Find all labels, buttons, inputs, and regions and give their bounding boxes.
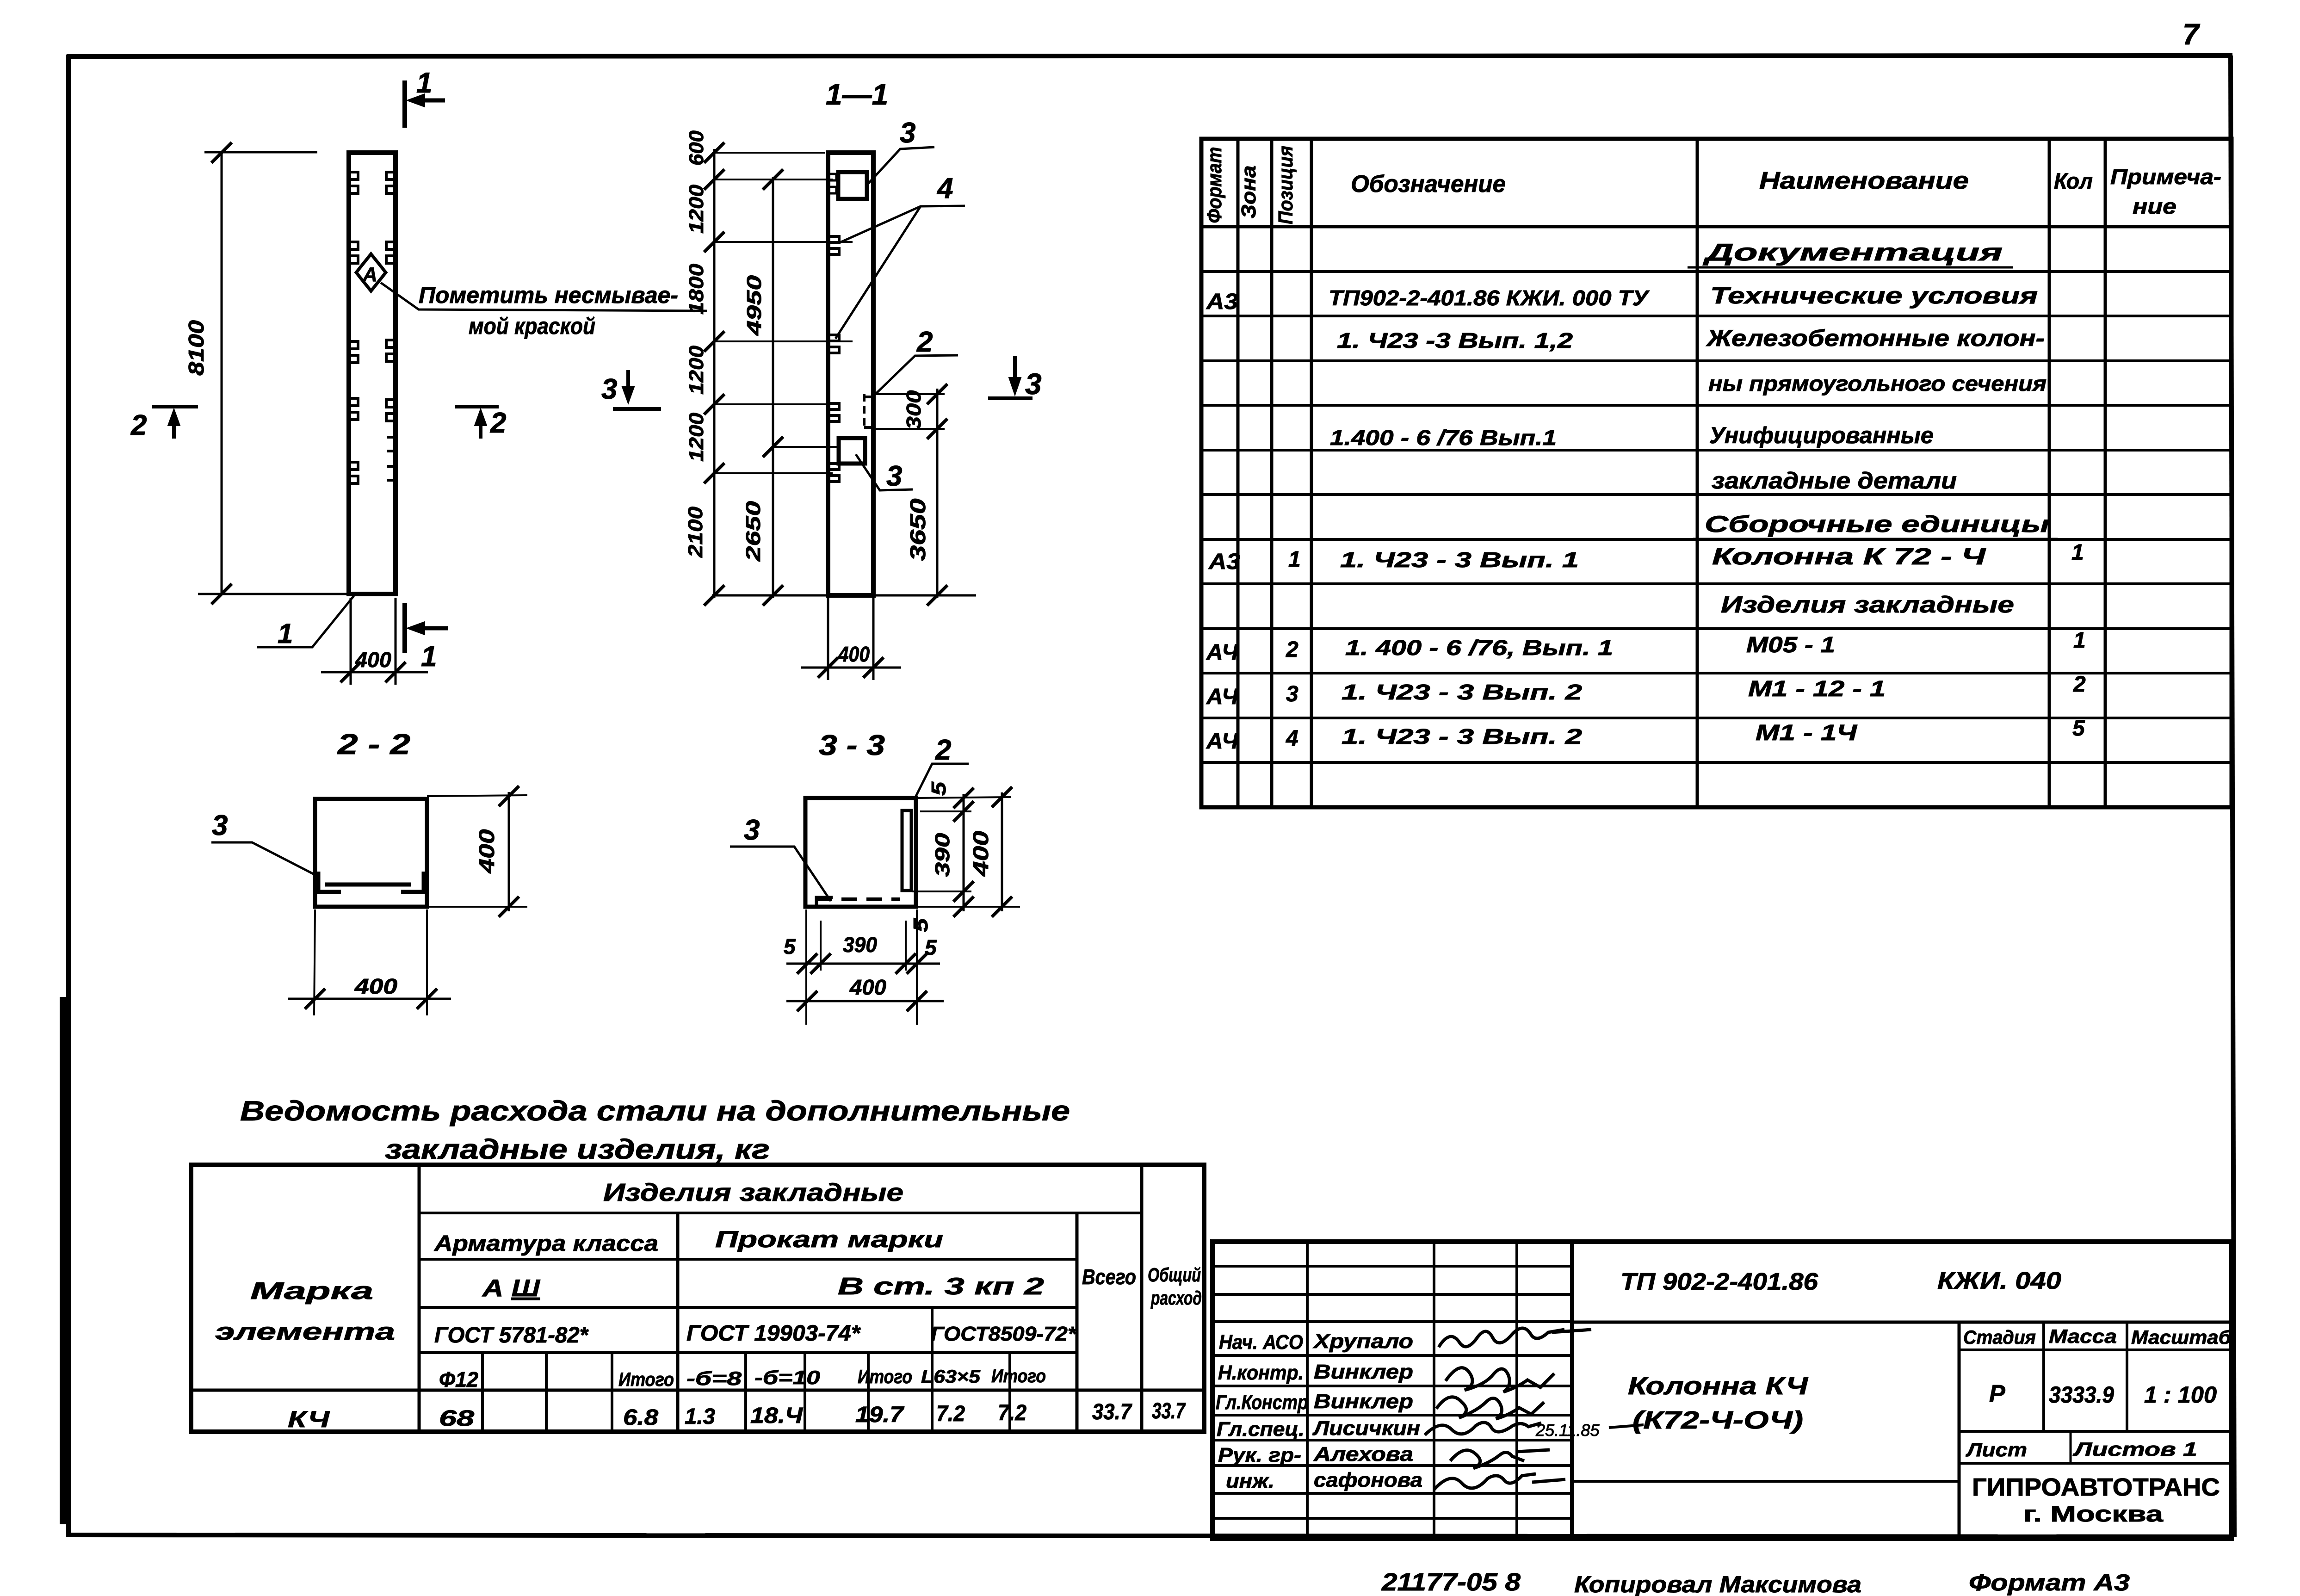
steel table v-line sub 7 bbox=[1008, 1353, 1011, 1432]
dimension 8100 top extension bbox=[204, 151, 317, 154]
svg-text:Колонна КЧ: Колонна КЧ bbox=[1628, 1372, 1809, 1400]
steel table v-line sub 3 bbox=[611, 1353, 613, 1432]
spec table row line 8 bbox=[1201, 582, 2232, 585]
spec table row line 4 bbox=[1201, 404, 2232, 407]
section mark 3 line bbox=[613, 407, 661, 411]
section mark 1 bottom arrow bbox=[415, 626, 448, 631]
elevation 400 extension left bbox=[350, 598, 352, 685]
spec table v-line 4 bbox=[1696, 139, 1699, 807]
signature lisichkin bbox=[1425, 1423, 1541, 1435]
svg-text:1: 1 bbox=[2073, 628, 2086, 653]
svg-text:3: 3 bbox=[900, 117, 915, 149]
spec table v-line 6 bbox=[2104, 139, 2107, 807]
svg-text:1. Ч23 - 3 Вып. 2: 1. Ч23 - 3 Вып. 2 bbox=[1342, 680, 1583, 704]
spec table row line 12 bbox=[1201, 761, 2232, 764]
elevation 400 extension right bbox=[395, 598, 397, 685]
section 3-3 right inner dim line bbox=[963, 794, 965, 911]
section mark 2 left arrow bbox=[172, 414, 176, 439]
svg-text:390: 390 bbox=[931, 833, 954, 877]
svg-text:мой краской: мой краской bbox=[469, 313, 595, 339]
svg-text:300: 300 bbox=[903, 390, 925, 430]
svg-text:1: 1 bbox=[278, 618, 293, 649]
leader line from diamond to paint note bbox=[381, 283, 707, 311]
steel table h-line 3 bbox=[419, 1306, 1077, 1309]
svg-text:3650: 3650 bbox=[906, 498, 930, 561]
svg-text:ние: ние bbox=[2133, 194, 2176, 218]
svg-text:3 - 3: 3 - 3 bbox=[819, 730, 885, 761]
svg-text:ны прямоугольного сечения: ны прямоугольного сечения bbox=[1708, 371, 2047, 396]
svg-text:3333.9: 3333.9 bbox=[2049, 1382, 2114, 1408]
drawing frame right border bbox=[2231, 56, 2234, 1537]
section 1-1 lower embed plate 3 bbox=[839, 438, 865, 464]
svg-text:Изделия закладные: Изделия закладные bbox=[1721, 592, 2014, 618]
svg-text:18.Ч: 18.Ч bbox=[750, 1404, 803, 1428]
svg-text:7: 7 bbox=[2183, 18, 2201, 51]
spec table v-line 2 bbox=[1270, 139, 1274, 807]
svg-text:1: 1 bbox=[421, 641, 437, 673]
spec table v-line 5 bbox=[2048, 139, 2051, 807]
spec table v-line 3 bbox=[1310, 139, 1313, 807]
svg-text:ТП 902-2-401.86: ТП 902-2-401.86 bbox=[1620, 1268, 1818, 1295]
signature vinkler2 bbox=[1436, 1397, 1544, 1419]
section 3-3 right ext 390 bottom bbox=[912, 891, 971, 892]
svg-text:2100: 2100 bbox=[684, 506, 707, 558]
spec table row line 9 bbox=[1201, 627, 2232, 630]
section 2-2 right ext top bbox=[427, 795, 527, 796]
steel table v-line sub 5 bbox=[804, 1353, 806, 1432]
svg-text:5: 5 bbox=[927, 781, 950, 796]
svg-text:ГИПРОАВТОТРАНС: ГИПРОАВТОТРАНС bbox=[1972, 1473, 2220, 1501]
svg-text:А: А bbox=[362, 263, 377, 286]
svg-text:(К72-Ч-ОЧ): (К72-Ч-ОЧ) bbox=[1632, 1406, 1803, 1434]
svg-text:Итого: Итого bbox=[991, 1366, 1046, 1386]
section 3-3 right inner ticks bbox=[953, 788, 974, 808]
steel table v-line vsego-left bbox=[1076, 1213, 1079, 1432]
svg-text:4950: 4950 bbox=[743, 275, 766, 336]
svg-text:2: 2 bbox=[916, 326, 933, 358]
svg-text:600: 600 bbox=[685, 130, 708, 166]
elevation left embed mark 2 bbox=[350, 242, 358, 263]
svg-text:1. Ч23 - 3 Вып. 2: 1. Ч23 - 3 Вып. 2 bbox=[1342, 724, 1583, 749]
svg-text:33.7: 33.7 bbox=[1092, 1400, 1132, 1424]
svg-text:Колонна К 72 - Ч: Колонна К 72 - Ч bbox=[1712, 544, 1986, 569]
section 3-3 leader 2 line bbox=[915, 764, 969, 798]
extension line level 1800 bbox=[714, 241, 853, 243]
signature safonova bbox=[1434, 1474, 1565, 1490]
svg-text:Винклер: Винклер bbox=[1314, 1361, 1413, 1383]
extension line level 600 bbox=[714, 179, 833, 180]
svg-text:закладные детали: закладные детали bbox=[1712, 468, 1957, 494]
dim 300-3650 line bbox=[936, 389, 939, 598]
section mark 1 top arrow bbox=[415, 99, 445, 103]
svg-text:Рук. гр-: Рук. гр- bbox=[1218, 1444, 1301, 1466]
section 3-3 bottom ext inner left bbox=[820, 921, 822, 971]
svg-text:Зона: Зона bbox=[1237, 166, 1260, 219]
section 1-1 top small hook bbox=[829, 174, 836, 193]
dim 300 bottom extension bbox=[874, 428, 945, 430]
svg-text:Нач. АСО: Нач. АСО bbox=[1219, 1331, 1303, 1354]
svg-text:3: 3 bbox=[601, 373, 617, 405]
svg-text:3: 3 bbox=[212, 810, 228, 841]
svg-text:25.11.85: 25.11.85 bbox=[1535, 1421, 1600, 1440]
svg-text:Алехова: Алехова bbox=[1313, 1443, 1413, 1466]
svg-text:L63×5: L63×5 bbox=[921, 1367, 981, 1387]
section 3-3 right outer dim line bbox=[1001, 792, 1003, 911]
svg-text:В ст. 3 кп 2: В ст. 3 кп 2 bbox=[838, 1273, 1044, 1300]
svg-text:2: 2 bbox=[935, 734, 951, 766]
svg-text:5: 5 bbox=[2072, 716, 2085, 741]
svg-text:5: 5 bbox=[925, 935, 937, 959]
section mark 3 view line bbox=[988, 396, 1033, 400]
steel table h-line data bbox=[191, 1389, 1204, 1392]
spec table row line 11 bbox=[1201, 717, 2232, 719]
svg-text:1: 1 bbox=[2071, 540, 2084, 565]
svg-text:АЧ: АЧ bbox=[1206, 729, 1238, 754]
section 3-3 bottom ext left bbox=[805, 909, 807, 1025]
section 3-3 right ext top bbox=[916, 797, 1011, 798]
section 2-2 outline bbox=[315, 799, 427, 907]
steel table v-line sub 1 bbox=[481, 1353, 484, 1432]
section mark 1 top flag bbox=[402, 80, 407, 128]
section 2-2 right ext bottom bbox=[427, 906, 527, 908]
svg-text:АЧ: АЧ bbox=[1206, 685, 1238, 709]
steel table h-line 4 bbox=[419, 1351, 1077, 1354]
section 1-1 400 ticks bbox=[818, 657, 838, 678]
dim chain outer line bbox=[713, 149, 716, 598]
title block h-line doc top bbox=[1572, 1321, 2232, 1324]
svg-text:1200: 1200 bbox=[685, 412, 708, 462]
section 3-3 dashed plate 3 bbox=[816, 897, 900, 901]
dim 300 top extension bbox=[874, 393, 945, 395]
elevation left embed mark 5 bbox=[350, 462, 358, 483]
svg-text:Кол: Кол bbox=[2054, 169, 2093, 194]
svg-text:Пометить несмывае-: Пометить несмывае- bbox=[419, 282, 678, 308]
svg-text:400: 400 bbox=[354, 974, 398, 998]
dim chain outer ticks bbox=[704, 142, 724, 163]
spec table row line 2 bbox=[1201, 315, 2232, 317]
spec table row line 10 bbox=[1201, 672, 2232, 674]
dimension 8100 line bbox=[221, 153, 223, 594]
svg-text:Винклер: Винклер bbox=[1314, 1390, 1413, 1413]
extension line level 6000 bbox=[714, 472, 833, 474]
svg-text:7.2: 7.2 bbox=[936, 1402, 965, 1426]
section mark 2 left line bbox=[152, 405, 198, 408]
svg-text:1 : 100: 1 : 100 bbox=[2144, 1382, 2217, 1408]
svg-text:закладные изделия, кг: закладные изделия, кг bbox=[385, 1134, 770, 1165]
title block v-line listov bbox=[2070, 1431, 2072, 1463]
section 2-2 bottom ext left bbox=[314, 909, 315, 1015]
extension line level 3600 bbox=[714, 340, 853, 342]
extension line level 0 bbox=[712, 152, 825, 154]
drawing frame top border bbox=[67, 56, 2232, 56]
spec table row line 3 bbox=[1201, 359, 2232, 362]
svg-text:21177-05 8: 21177-05 8 bbox=[1381, 1568, 1521, 1596]
signature vinkler1 bbox=[1446, 1368, 1554, 1392]
section mark 1 bottom flag bbox=[402, 603, 407, 653]
steel table h-line 1 bbox=[419, 1212, 1142, 1214]
svg-text:г. Москва: г. Москва bbox=[2023, 1502, 2163, 1527]
svg-text:Ведомость расхода стали на: Ведомость расхода стали на дополнительны… bbox=[240, 1095, 1070, 1126]
svg-text:4: 4 bbox=[1286, 726, 1298, 751]
section 1-1 top embed plate 3 bbox=[838, 172, 867, 199]
title block v-line roles bbox=[1306, 1242, 1309, 1539]
svg-text:М1 - 1Ч: М1 - 1Ч bbox=[1756, 721, 1857, 745]
svg-text:2: 2 bbox=[1286, 637, 1298, 662]
svg-text:7.2: 7.2 bbox=[998, 1401, 1026, 1425]
section 3-3 dashed plate hook bbox=[816, 897, 833, 906]
svg-text:1.400 - 6 /76 Вып.1: 1.400 - 6 /76 Вып.1 bbox=[1330, 426, 1557, 450]
svg-text:1200: 1200 bbox=[685, 345, 708, 395]
svg-text:Лист: Лист bbox=[1966, 1439, 2027, 1460]
svg-text:19.7: 19.7 bbox=[855, 1403, 905, 1427]
svg-text:ГОСТ8509-72*: ГОСТ8509-72* bbox=[931, 1323, 1077, 1345]
elevation right embed mark 3 bbox=[386, 340, 395, 361]
svg-text:Гл.Констр: Гл.Констр bbox=[1216, 1391, 1308, 1414]
svg-text:Формат: Формат bbox=[1203, 147, 1226, 223]
elevation right embed mark 4 bbox=[386, 400, 395, 421]
leader 4 lines bbox=[835, 206, 965, 339]
svg-text:Копировал Максимова: Копировал Максимова bbox=[1574, 1571, 1861, 1596]
title block v-line massa bbox=[2042, 1322, 2045, 1431]
title block h-line left 8 bbox=[1212, 1464, 1572, 1467]
svg-text:Позиция: Позиция bbox=[1274, 146, 1297, 224]
section 1-1 embed mark 4-4 bbox=[830, 464, 839, 482]
elevation left embed mark 1 bbox=[350, 172, 358, 193]
section mark 3 arrow bbox=[626, 370, 630, 397]
section 3-3 right ext bottom bbox=[918, 906, 1020, 908]
steel table v-line gost divider bbox=[931, 1307, 934, 1432]
section 3-3 bottom inner dim line bbox=[786, 963, 940, 965]
section 3-3 outline bbox=[805, 798, 916, 907]
title block h-line left 10 bbox=[1212, 1517, 1572, 1520]
section 1-1 column outline bbox=[828, 153, 873, 595]
section 2-2 dim 400 bottom ticks bbox=[305, 989, 325, 1009]
svg-text:3: 3 bbox=[1286, 682, 1298, 706]
elevation right dashed embed marks bbox=[387, 437, 395, 480]
signature khrupalo bbox=[1439, 1328, 1591, 1347]
svg-text:33.7: 33.7 bbox=[1152, 1399, 1186, 1423]
svg-text:1. Ч23 -3 Вып. 1,2: 1. Ч23 -3 Вып. 1,2 bbox=[1337, 328, 1573, 353]
binding thick mark on left border bbox=[60, 997, 68, 1524]
svg-text:ГОСТ 5781-82*: ГОСТ 5781-82* bbox=[434, 1323, 589, 1348]
spec table v-line 1 bbox=[1237, 139, 1240, 807]
dim chain inner ticks bbox=[763, 169, 783, 190]
svg-text:2: 2 bbox=[490, 407, 506, 439]
elevation right embed mark 2 bbox=[386, 242, 395, 263]
svg-text:Наименование: Наименование bbox=[1759, 167, 1969, 194]
svg-text:8100: 8100 bbox=[184, 320, 208, 376]
spec table outline bbox=[1201, 139, 2232, 807]
section 2-2 left anchor angle bbox=[316, 872, 341, 892]
svg-text:Масса: Масса bbox=[2049, 1325, 2117, 1347]
drawing frame left border bbox=[66, 55, 71, 1537]
section 1-1 embed mark 4-3 bbox=[830, 403, 839, 421]
svg-text:Н.контр.: Н.контр. bbox=[1218, 1361, 1304, 1384]
section 1-1 400 dim line bbox=[801, 667, 901, 669]
extension line level 4800 bbox=[714, 403, 833, 405]
svg-text:1.3: 1.3 bbox=[685, 1404, 715, 1429]
title block h-line left 2 bbox=[1212, 1293, 1572, 1296]
svg-text:3: 3 bbox=[886, 460, 902, 492]
section 3-3 corner plate 2 bbox=[902, 810, 911, 891]
svg-text:2650: 2650 bbox=[742, 501, 765, 562]
svg-text:АЧ: АЧ bbox=[1206, 640, 1238, 665]
section 3-3 bottom outer dim line bbox=[786, 1000, 944, 1002]
section 1-1 embed mark 4-1 bbox=[830, 236, 839, 254]
svg-text:68: 68 bbox=[439, 1406, 474, 1431]
svg-text:Стадия: Стадия bbox=[1963, 1326, 2036, 1348]
svg-text:Лисичкин: Лисичкин bbox=[1312, 1417, 1420, 1440]
steel table v-line armatura/prokat bbox=[676, 1213, 680, 1432]
spec table row line 1 bbox=[1201, 270, 2232, 273]
svg-text:1. 400 - 6 /76, Вып. 1: 1. 400 - 6 /76, Вып. 1 bbox=[1345, 636, 1613, 660]
svg-text:Примеча-: Примеча- bbox=[2110, 165, 2221, 189]
svg-text:Документация: Документация bbox=[1703, 239, 2003, 266]
svg-text:А3: А3 bbox=[1208, 550, 1240, 574]
elevation right embed mark 1 bbox=[386, 172, 395, 193]
svg-text:400: 400 bbox=[849, 975, 886, 999]
title block v-line sign bbox=[1515, 1242, 1518, 1539]
elevation 400 dim line bbox=[321, 671, 428, 674]
svg-text:4: 4 bbox=[936, 173, 953, 204]
svg-text:Ф12: Ф12 bbox=[439, 1367, 478, 1392]
elevation left embed mark 3 bbox=[350, 341, 358, 363]
section mark 2 right line bbox=[455, 405, 499, 408]
svg-text:Марка: Марка bbox=[250, 1278, 373, 1305]
svg-text:Унифицированные: Унифицированные bbox=[1709, 422, 1934, 448]
svg-text:1—1: 1—1 bbox=[826, 78, 888, 111]
svg-text:Арматура класса: Арматура класса bbox=[434, 1231, 658, 1256]
svg-text:390: 390 bbox=[843, 933, 877, 957]
leader 3 top bbox=[867, 147, 934, 185]
title block h-line list row bbox=[1959, 1462, 2232, 1465]
svg-text:400: 400 bbox=[475, 829, 499, 874]
svg-text:Масштаб: Масштаб bbox=[2131, 1326, 2232, 1348]
svg-text:Железобетонные колон-: Железобетонные колон- bbox=[1706, 325, 2045, 351]
dimension 8100 bottom extension bbox=[198, 593, 352, 595]
svg-text:1200: 1200 bbox=[685, 184, 708, 234]
svg-text:Р: Р bbox=[1989, 1380, 2005, 1407]
section 3-3 bottom ext inner right bbox=[905, 921, 907, 971]
svg-text:сафонова: сафонова bbox=[1314, 1469, 1422, 1491]
section 1-1 embed mark 4-2 bbox=[830, 335, 839, 353]
elevation left embed mark 4 bbox=[350, 398, 358, 420]
dim 300 ticks bbox=[927, 384, 947, 404]
title block v-line stadia bbox=[1958, 1322, 1961, 1539]
section 2-2 bottom ext right bbox=[426, 909, 428, 1015]
section mark 3 view arrow bbox=[1013, 356, 1017, 388]
svg-text:ТП902-2-401.86 КЖИ. 000 ТУ: ТП902-2-401.86 КЖИ. 000 ТУ bbox=[1329, 286, 1650, 310]
title block h-line left 9 bbox=[1212, 1492, 1572, 1495]
section 1-1 400 ext right bbox=[872, 598, 875, 680]
svg-text:М1 - 12 - 1: М1 - 12 - 1 bbox=[1748, 677, 1886, 701]
svg-text:Технические условия: Технические условия bbox=[1710, 283, 2038, 309]
section 2-2 dim 400 bottom line bbox=[288, 998, 451, 1000]
svg-text:400: 400 bbox=[838, 642, 870, 666]
leader 3 bottom line bbox=[856, 454, 913, 490]
leader 2 line bbox=[871, 355, 958, 398]
title block h-line left 1 bbox=[1212, 1265, 1572, 1268]
svg-text:3: 3 bbox=[744, 814, 760, 846]
svg-text:расход: расход bbox=[1150, 1287, 1202, 1309]
section 2-2 right anchor angle bbox=[401, 872, 426, 892]
svg-text:элемента: элемента bbox=[215, 1318, 395, 1345]
svg-text:6.8: 6.8 bbox=[623, 1405, 658, 1430]
section 2-2 leader 3 line bbox=[211, 842, 315, 875]
section 3-3 right outer ticks bbox=[992, 787, 1012, 807]
svg-text:Прокат марки: Прокат марки bbox=[715, 1226, 943, 1252]
svg-text:Общий: Общий bbox=[1148, 1264, 1201, 1286]
steel table v-line marka bbox=[418, 1165, 421, 1432]
svg-text:1. Ч23 - 3 Вып. 1: 1. Ч23 - 3 Вып. 1 bbox=[1340, 548, 1579, 572]
title block v-line date bbox=[1570, 1242, 1574, 1539]
steel table v-line sub 4 bbox=[744, 1353, 747, 1432]
svg-text:Формат А3: Формат А3 bbox=[1969, 1570, 2130, 1596]
svg-text:А3: А3 bbox=[1206, 290, 1238, 314]
svg-text:400: 400 bbox=[355, 648, 391, 672]
drawing frame bottom border bbox=[67, 1535, 2232, 1537]
svg-text:1: 1 bbox=[416, 67, 432, 99]
svg-text:инж.: инж. bbox=[1226, 1470, 1274, 1492]
steel table h-line 2 bbox=[419, 1258, 1077, 1261]
section 3-3 bottom ext right bbox=[916, 909, 918, 1025]
section 2-2 embed plate line bbox=[325, 883, 411, 887]
svg-text:КЧ: КЧ bbox=[288, 1406, 330, 1432]
svg-text:М05 - 1: М05 - 1 bbox=[1746, 633, 1835, 657]
title block h-line left 6 bbox=[1212, 1414, 1572, 1417]
steel table v-line sub 2 bbox=[545, 1353, 548, 1432]
svg-text:А Ш: А Ш bbox=[482, 1275, 541, 1302]
title block outline bbox=[1212, 1242, 2232, 1539]
svg-text:Итого: Итого bbox=[618, 1368, 674, 1390]
svg-text:Хрупало: Хрупало bbox=[1312, 1330, 1413, 1353]
elevation 400 dim ticks bbox=[340, 662, 361, 682]
signature alekhova bbox=[1450, 1450, 1550, 1468]
svg-text:5: 5 bbox=[909, 918, 932, 932]
spec table row line 6 bbox=[1201, 493, 2232, 496]
section 2-2 dim 400 right line bbox=[508, 792, 510, 911]
dim chain inner line bbox=[772, 177, 774, 598]
section 3-3 bottom outer ticks bbox=[797, 991, 817, 1011]
mark A diamond bbox=[356, 254, 386, 291]
svg-text:1: 1 bbox=[1288, 547, 1301, 572]
svg-text:3: 3 bbox=[1025, 367, 1042, 401]
extension line level 4950 bbox=[773, 446, 839, 448]
title block h-line stadia header bbox=[1959, 1349, 2232, 1351]
leader 1 at column foot bbox=[257, 596, 354, 647]
title block v-line names bbox=[1433, 1242, 1435, 1539]
svg-text:-б=10: -б=10 bbox=[754, 1367, 820, 1388]
svg-text:КЖИ. 040: КЖИ. 040 bbox=[1937, 1268, 2061, 1294]
section mark 2 right arrow bbox=[479, 414, 482, 439]
svg-text:Гл.спец.: Гл.спец. bbox=[1217, 1418, 1305, 1441]
dimension 8100 ticks bbox=[211, 142, 232, 163]
section 1-1 400 ext left bbox=[827, 598, 829, 680]
svg-text:Обозначение: Обозначение bbox=[1351, 171, 1506, 198]
extension line bottom long bbox=[712, 594, 976, 597]
column elevation outline bbox=[349, 153, 396, 594]
section 3-3 bottom inner ticks bbox=[797, 953, 817, 974]
svg-text:2: 2 bbox=[130, 409, 147, 441]
svg-text:ГОСТ 19903-74*: ГОСТ 19903-74* bbox=[686, 1321, 861, 1346]
section 3-3 leader 3 line bbox=[730, 847, 831, 901]
svg-text:-б=8: -б=8 bbox=[686, 1367, 742, 1389]
title block h-line name bottom bbox=[1572, 1480, 1959, 1483]
title block h-line left 3 bbox=[1212, 1320, 1572, 1323]
spec table row line 5 bbox=[1201, 449, 2232, 452]
section 2-2 dim 400 right ticks bbox=[499, 786, 519, 806]
title block h-line stadia values bbox=[1959, 1430, 2232, 1433]
